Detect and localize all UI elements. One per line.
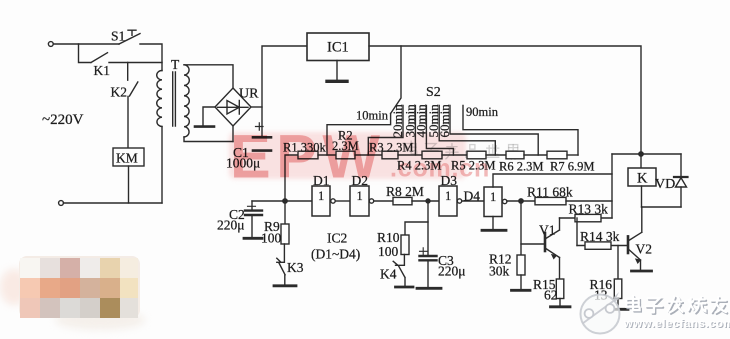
node: 20min contact	[368, 106, 403, 156]
svg-text:R10: R10	[377, 230, 400, 245]
resistor R12	[520, 201, 522, 255]
node: AC terminal top	[48, 42, 53, 47]
ground (K3)	[274, 284, 296, 287]
svg-text:R11 68k: R11 68k	[527, 185, 573, 200]
ground (R16)	[612, 308, 629, 311]
ground (D4)	[492, 217, 494, 230]
transformer core	[173, 72, 176, 126]
svg-text:1: 1	[318, 189, 324, 203]
svg-text:K2: K2	[111, 85, 128, 100]
transistor V1	[521, 243, 544, 245]
svg-text:EPW: EPW	[230, 123, 385, 191]
svg-text:S1: S1	[111, 29, 125, 44]
diode VD	[680, 154, 682, 177]
inverter D2	[350, 186, 369, 216]
svg-text:220μ: 220μ	[438, 264, 466, 279]
wire	[318, 154, 336, 156]
capacitor C2	[251, 201, 253, 210]
node A junction	[283, 199, 287, 203]
transformer T secondary	[184, 65, 189, 137]
resistor R15	[556, 279, 564, 299]
wire: secondary bottom to bridge	[184, 137, 233, 142]
svg-text:1: 1	[357, 189, 363, 203]
svg-text:R13 3k: R13 3k	[569, 202, 609, 217]
svg-text:K4: K4	[380, 267, 397, 282]
wire: secondary top to bridge	[184, 65, 233, 88]
transistor V2	[627, 236, 630, 253]
switch S1	[119, 34, 140, 44]
node: 50min contact	[439, 106, 495, 156]
resistor R16	[617, 246, 619, 280]
pink censor block bottom-left	[0, 256, 145, 330]
svg-text:~220V: ~220V	[42, 112, 84, 128]
elecfans watermark text dianzifashaoyou (embossed drawn glyphs)	[628, 297, 728, 313]
svg-text:220μ: 220μ	[217, 218, 245, 233]
elecfans watermark url	[623, 318, 730, 331]
resistor R7	[547, 151, 567, 159]
svg-text:D4: D4	[464, 189, 481, 204]
svg-text:V2: V2	[636, 242, 653, 257]
ground (V2)	[632, 270, 652, 273]
node: 30min contact	[414, 106, 416, 156]
wire: relay rail	[612, 153, 681, 155]
wire	[463, 200, 485, 202]
switch K4	[393, 255, 405, 286]
wire: top rail to relay	[369, 46, 641, 152]
wire	[567, 154, 578, 156]
svg-text:1: 1	[445, 189, 451, 203]
wire: bridge bottom lead	[232, 126, 234, 142]
svg-text:UR: UR	[239, 87, 259, 102]
inverter D1	[312, 186, 330, 216]
wire	[336, 200, 350, 202]
node: relay rail junction	[639, 152, 643, 156]
wire	[355, 154, 382, 156]
transformer T primary	[157, 71, 162, 127]
svg-text:K3: K3	[287, 260, 304, 275]
svg-text:10min: 10min	[356, 109, 389, 123]
svg-text:IC2: IC2	[327, 231, 347, 246]
switch contact K2	[128, 63, 138, 149]
switch contact K1	[79, 44, 163, 63]
resistor R8	[393, 197, 412, 204]
rotary switch S2 wiper	[391, 46, 401, 114]
capacitor C1	[256, 123, 264, 130]
wire: output node vertical	[611, 154, 613, 218]
wire: D4 top input	[493, 174, 612, 187]
resistor R11	[507, 200, 535, 202]
op-amp IC1	[307, 33, 369, 61]
node: 60min contact	[450, 106, 538, 156]
resistor R3	[382, 151, 398, 159]
ground (C2)	[244, 237, 262, 240]
wire: primary bottom	[161, 127, 163, 204]
svg-text:VD: VD	[655, 177, 675, 192]
wire	[375, 200, 394, 202]
svg-text:IC1: IC1	[327, 40, 349, 56]
resistor R6	[506, 151, 524, 159]
resistor R13	[560, 217, 613, 219]
switch K3	[277, 244, 285, 284]
resistor R9	[284, 201, 286, 224]
capacitor C3	[427, 201, 429, 255]
resistor R1	[285, 155, 298, 201]
svg-text:R6 2.3M: R6 2.3M	[499, 160, 543, 174]
svg-text:100: 100	[378, 244, 399, 259]
node: 90min contact	[463, 106, 578, 156]
ground (R15)	[551, 305, 571, 308]
svg-text:K1: K1	[94, 63, 111, 78]
wire: S1 to transformer	[140, 44, 162, 71]
relay K	[640, 154, 642, 168]
node: 40min contact	[426, 106, 453, 156]
svg-text:1: 1	[490, 190, 496, 204]
svg-text:90min: 90min	[466, 105, 499, 119]
resistor R10	[405, 222, 428, 235]
svg-text:R7 6.9M: R7 6.9M	[550, 160, 594, 174]
wire: AC top lead	[53, 43, 119, 45]
svg-text:KM: KM	[116, 151, 138, 166]
ground (R12)	[512, 289, 531, 292]
wire: node A signal line	[252, 200, 312, 202]
ground (bridge left)	[203, 107, 215, 125]
wire	[524, 154, 547, 156]
resistor R4	[422, 151, 442, 159]
wire	[412, 200, 439, 202]
node: 10min contact	[327, 114, 391, 156]
wire	[442, 154, 467, 156]
svg-text:30k: 30k	[489, 264, 510, 279]
svg-text:www.elecfans.com: www.elecfans.com	[623, 318, 730, 330]
svg-text:(D1~D4): (D1~D4)	[311, 247, 360, 262]
node: AC terminal bottom	[59, 201, 64, 206]
svg-text:K: K	[637, 171, 648, 187]
resistor R14	[577, 245, 627, 247]
inverter D3	[439, 186, 457, 216]
red EPW watermark band (overlay)	[229, 123, 490, 191]
wire: bottom rail	[64, 202, 163, 204]
ground (IC1)	[336, 61, 338, 81]
bridge rectifier UR	[215, 88, 251, 126]
ground (K4)	[396, 286, 414, 289]
resistor R5	[467, 151, 486, 159]
svg-text:V1: V1	[539, 223, 556, 238]
svg-text:S2: S2	[426, 85, 441, 100]
ground (C3)	[417, 287, 441, 290]
svg-text:100: 100	[261, 231, 282, 246]
wire	[398, 154, 422, 156]
svg-text:T: T	[171, 57, 180, 72]
wire: bridge + output	[251, 106, 262, 108]
wire: DC rail to IC1	[262, 46, 307, 137]
wire	[576, 218, 578, 246]
wire: K/VD bottom	[642, 206, 682, 208]
svg-text:.com.cn: .com.cn	[390, 155, 490, 183]
resistor R2	[336, 151, 355, 159]
svg-text:R8 2M: R8 2M	[386, 184, 424, 199]
svg-text:62: 62	[544, 288, 558, 303]
wire	[486, 154, 506, 156]
inverter D4	[484, 187, 502, 217]
svg-text:R14 3k: R14 3k	[580, 229, 620, 244]
relay coil KM	[113, 148, 144, 166]
gray watermark dianzi chanpin shijie (drawn glyphs)	[405, 141, 518, 159]
